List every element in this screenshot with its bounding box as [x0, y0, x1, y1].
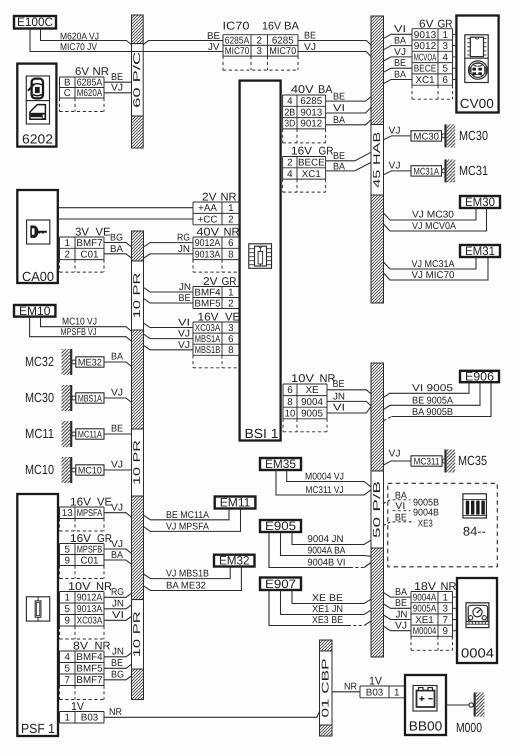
svg-text:6285A: 6285A	[77, 78, 103, 89]
wire XE3 BE from E907 (dashed at harness)	[269, 590, 348, 626]
icon 0004 instrument cluster	[466, 603, 489, 628]
svg-text:BE: BE	[111, 424, 123, 435]
svg-text:4: 4	[65, 652, 71, 663]
svg-text:9005A: 9005A	[413, 604, 437, 615]
svg-text:GR: GR	[319, 146, 334, 158]
wire JN 9013A	[104, 605, 132, 609]
svg-text:JN: JN	[112, 599, 124, 610]
wire 9004 JN from E905	[292, 532, 371, 545]
wire VJ MCVOA	[384, 57, 413, 61]
wire RG 9012A	[144, 243, 194, 247]
wire RG 9012A	[104, 593, 132, 597]
svg-text:VJ: VJ	[178, 340, 190, 351]
wire BE 6285 to 45HAB	[298, 41, 372, 46]
svg-text:5: 5	[443, 64, 449, 75]
svg-text:8: 8	[287, 397, 293, 408]
svg-text:7: 7	[65, 675, 70, 686]
wire JN 9013A	[144, 254, 194, 258]
svg-text:6: 6	[443, 75, 449, 86]
svg-text:3: 3	[228, 323, 234, 334]
svg-text:EM32: EM32	[219, 554, 250, 568]
wire VJ MPSFB	[104, 549, 132, 554]
connector table 1V (PSF1)	[60, 712, 105, 724]
wire VJ M0004	[384, 626, 412, 631]
wire VJ MBS1B to EM32	[144, 567, 231, 579]
svg-text:9: 9	[443, 626, 448, 637]
wire BE BMF5	[104, 664, 132, 668]
wire BE BMF5	[144, 298, 194, 303]
svg-text:8V: 8V	[73, 640, 89, 652]
pin stub ticks 0004	[453, 596, 458, 598]
svg-text:NR: NR	[221, 191, 237, 203]
wire VJ to MC311	[384, 461, 412, 465]
svg-text:9012A: 9012A	[77, 593, 103, 604]
svg-text:2: 2	[228, 215, 233, 226]
svg-text:NR: NR	[441, 581, 457, 593]
svg-text:6V: 6V	[419, 18, 434, 30]
svg-text:M000: M000	[456, 720, 482, 735]
connector table 16V GR (BSI1)	[283, 157, 326, 193]
svg-text:MIC70: MIC70	[225, 46, 250, 57]
svg-text:+AA: +AA	[198, 203, 217, 214]
ground/splice point EM30	[460, 195, 500, 209]
svg-text:BG: BG	[111, 670, 124, 681]
connector table 2V NR (BSI1)	[193, 202, 240, 226]
svg-text:E907: E907	[265, 577, 296, 591]
svg-text:VJ: VJ	[394, 47, 406, 58]
wire VJ MC31A to EM31	[384, 257, 477, 269]
svg-text:BE: BE	[207, 31, 221, 42]
ground MC11	[25, 421, 104, 447]
svg-text:XE1 JN: XE1 JN	[312, 604, 343, 615]
connector 84 (dashed optional unit)	[388, 483, 498, 567]
wire JN 9004	[327, 401, 371, 406]
wire VJ MBS1B	[144, 345, 194, 350]
svg-text:XE3: XE3	[418, 518, 433, 529]
svg-text:XE BE: XE BE	[312, 593, 343, 604]
wire VJ to MC30	[384, 136, 412, 140]
svg-text:9013: 9013	[300, 107, 322, 118]
svg-text:VJ MCV0A: VJ MCV0A	[412, 221, 456, 232]
svg-text:84--: 84--	[463, 524, 486, 538]
wire BA 9005B to E906 (dashed at harness)	[384, 417, 392, 421]
ground/splice point EM11	[215, 496, 256, 510]
svg-text:16V: 16V	[291, 146, 313, 158]
svg-text:M620A VJ: M620A VJ	[60, 31, 99, 42]
svg-text:2V: 2V	[202, 191, 217, 203]
svg-text:JV: JV	[208, 42, 220, 53]
svg-text:JN: JN	[333, 391, 345, 402]
svg-text:GR: GR	[438, 18, 453, 30]
svg-text:MC30: MC30	[25, 390, 54, 405]
connector table IC70	[223, 35, 298, 70]
svg-text:MC31: MC31	[459, 163, 488, 178]
icon 6202 lock/plip cells	[26, 76, 49, 124]
component 0004	[457, 578, 497, 663]
svg-text:BA: BA	[394, 69, 406, 80]
svg-text:BE: BE	[111, 658, 123, 669]
svg-text:MBS1B: MBS1B	[195, 345, 221, 356]
harness 10 PR	[132, 231, 144, 700]
svg-text:VJ: VJ	[111, 388, 123, 399]
svg-text:XE3 BE: XE3 BE	[312, 615, 343, 626]
svg-text:BE: BE	[333, 379, 345, 390]
svg-text:9013A: 9013A	[77, 604, 103, 615]
wire MPSFB VJ from EM10	[30, 317, 132, 342]
wire VI 9013	[384, 34, 413, 38]
wire BA XC1 to 45HAB	[326, 162, 372, 171]
connector table 16V VE (PSF1)	[60, 507, 105, 531]
ground MC30	[411, 124, 488, 147]
component CA00	[17, 190, 58, 283]
connector table 16V GR (PSF1)	[60, 544, 105, 579]
svg-text:MPSFB VJ: MPSFB VJ	[61, 327, 97, 338]
wire BE 9005A	[384, 604, 412, 609]
svg-text:1: 1	[65, 593, 70, 604]
svg-text:2B: 2B	[284, 107, 295, 118]
svg-text:60 P/C: 60 P/C	[132, 52, 143, 108]
svg-text:5: 5	[65, 544, 71, 555]
svg-text:4: 4	[287, 169, 293, 180]
svg-text:40V: 40V	[197, 226, 220, 238]
icon PSF1 fuse	[26, 597, 49, 621]
wire VJ MBS1A	[144, 334, 194, 339]
svg-text:9013: 9013	[414, 30, 437, 41]
wire BA ME32	[104, 362, 132, 367]
svg-text:CV00: CV00	[460, 96, 494, 111]
svg-text:RG: RG	[111, 587, 124, 598]
svg-text:MCVOA: MCVOA	[414, 52, 437, 63]
icon CV00 chip and round connector	[465, 35, 488, 83]
svg-text:MC10: MC10	[25, 462, 54, 477]
svg-text:BA: BA	[110, 244, 123, 255]
ground MC10	[25, 457, 104, 483]
svg-text:9012A: 9012A	[195, 238, 221, 249]
svg-text:B03: B03	[366, 687, 384, 698]
svg-text:BMF5: BMF5	[76, 664, 103, 675]
wire 9004B VI from E905 (dashed at harness)	[269, 532, 350, 568]
svg-text:MBS1A: MBS1A	[195, 334, 221, 345]
svg-text:8: 8	[228, 249, 234, 260]
wire VJ MCVOA to EM30	[384, 208, 487, 231]
wire BB00 to M000 ground	[446, 704, 469, 706]
svg-text:M620A: M620A	[77, 88, 103, 99]
svg-text:B03: B03	[81, 713, 99, 724]
svg-text:MC10: MC10	[78, 466, 102, 477]
wire BE 6285 to 45HAB	[326, 96, 372, 101]
wire BE 60P/C to IC70	[143, 41, 223, 45]
svg-text:BECE: BECE	[414, 64, 437, 75]
wire VJ MIC70 to EM31	[384, 257, 489, 280]
svg-text:MC311: MC311	[414, 457, 440, 468]
svg-text:M0004: M0004	[413, 626, 437, 637]
svg-text:9004B VI: 9004B VI	[308, 557, 346, 568]
svg-text:4: 4	[287, 96, 293, 107]
connector table 6V NR (6202)	[60, 77, 105, 112]
svg-text:NR: NR	[93, 66, 110, 78]
svg-text:EM10: EM10	[19, 304, 51, 318]
connector table 1V B03 (BB00)	[360, 686, 405, 698]
wire +AA from CA00	[58, 207, 193, 209]
wire BA ME32 to EM32	[144, 567, 242, 591]
wire JN BMF4	[104, 653, 132, 657]
wire BA 9012	[384, 46, 413, 50]
svg-text:BA: BA	[318, 84, 333, 96]
ground/splice point EM31	[460, 244, 500, 258]
svg-text:NR: NR	[96, 581, 112, 593]
connector table 2V GR (BSI1)	[193, 287, 240, 310]
svg-text:NR: NR	[95, 640, 111, 652]
svg-text:3D: 3D	[284, 119, 295, 130]
wire dashed stub to 84 BA	[384, 500, 391, 504]
svg-text:3: 3	[443, 604, 449, 615]
svg-text:VJ: VJ	[395, 621, 407, 632]
icon 84 DIP connector	[463, 494, 487, 518]
svg-text:0004: 0004	[461, 646, 494, 661]
wire BE BECE to 45HAB	[326, 152, 372, 161]
wire VJ MIC70 to 45HAB	[298, 52, 372, 57]
svg-text:1V: 1V	[369, 675, 383, 687]
svg-text:E905: E905	[265, 519, 296, 533]
svg-text:9004A: 9004A	[413, 593, 437, 604]
svg-text:1V: 1V	[71, 701, 85, 713]
svg-text:M0004 VJ: M0004 VJ	[305, 472, 344, 483]
connector table 8V NR (PSF1)	[60, 651, 105, 700]
wire BE 9005A to E906	[384, 382, 481, 409]
svg-text:2: 2	[65, 249, 70, 260]
connector table 18V NR (0004)	[411, 592, 453, 651]
svg-text:13: 13	[62, 508, 73, 519]
svg-text:6V: 6V	[75, 66, 90, 78]
connector table 3V VE (CA00)	[60, 237, 105, 272]
svg-text:9: 9	[65, 555, 70, 566]
svg-text:10V: 10V	[68, 581, 91, 593]
svg-text:B: B	[64, 78, 71, 89]
wire VJ MPSFA to EM11	[144, 509, 241, 532]
svg-text:16V: 16V	[198, 311, 220, 323]
svg-text:45 HAB: 45 HAB	[372, 131, 383, 188]
wire VI XC03A	[144, 323, 194, 328]
svg-text:40V: 40V	[291, 84, 314, 96]
svg-text:E906: E906	[465, 370, 494, 384]
svg-text:EM31: EM31	[465, 244, 495, 258]
svg-text:BA: BA	[111, 550, 123, 561]
connector table 16V VE (BSI1)	[193, 322, 240, 368]
svg-text:2: 2	[257, 35, 262, 46]
svg-text:GR: GR	[97, 533, 112, 545]
harness 01 CBP	[320, 640, 333, 736]
connector table 10V NR (BSI1)	[283, 384, 327, 432]
component CV00	[456, 16, 498, 113]
svg-text:BA: BA	[394, 36, 406, 47]
connector table 10V NR (PSF1)	[60, 592, 105, 640]
svg-text:2V: 2V	[203, 276, 218, 288]
svg-text:7: 7	[443, 615, 448, 626]
svg-text:VJ MC30: VJ MC30	[412, 210, 455, 221]
wire VI 9005	[327, 406, 371, 413]
svg-text:VJ: VJ	[389, 161, 401, 172]
svg-text:6: 6	[287, 385, 293, 396]
icon BSI1 internal connector	[249, 244, 272, 268]
svg-text:2: 2	[228, 298, 233, 309]
wire VJ MC30 to EM30	[384, 208, 477, 220]
svg-text:1: 1	[228, 287, 233, 298]
svg-text:3: 3	[443, 41, 449, 52]
component BSI1	[240, 81, 281, 441]
svg-text:BSI 1: BSI 1	[245, 426, 279, 441]
svg-text:9004A BA: 9004A BA	[308, 546, 346, 557]
svg-text:VJ MC31A: VJ MC31A	[412, 259, 455, 270]
svg-text:BA: BA	[284, 21, 300, 33]
svg-text:1: 1	[65, 238, 70, 249]
wire BE XE	[327, 390, 371, 394]
svg-text:C01: C01	[81, 249, 99, 260]
svg-text:JN: JN	[178, 244, 190, 255]
svg-text:JN: JN	[112, 647, 124, 658]
wire BA C01	[104, 254, 132, 258]
svg-text:VI: VI	[112, 610, 124, 621]
ground MC35	[411, 450, 487, 473]
svg-text:VI: VI	[178, 317, 190, 328]
svg-text:VJ: VJ	[178, 328, 190, 339]
wire BA XC1	[384, 80, 413, 84]
svg-text:BMF4: BMF4	[76, 652, 103, 663]
svg-text:5: 5	[65, 664, 71, 675]
svg-text:3V: 3V	[75, 226, 90, 238]
svg-text:BE: BE	[395, 598, 407, 609]
harness 45 HAB	[371, 16, 384, 303]
svg-text:5: 5	[65, 604, 71, 615]
svg-text:XC1: XC1	[302, 169, 321, 180]
component PSF1	[17, 494, 58, 736]
svg-text:BE: BE	[333, 91, 345, 102]
svg-text:IC70: IC70	[223, 21, 250, 33]
wire BA 9012 to 45HAB	[326, 120, 372, 125]
svg-text:VI: VI	[333, 403, 345, 414]
svg-text:VI: VI	[394, 24, 406, 35]
svg-text:VJ: VJ	[304, 42, 316, 53]
svg-text:9005: 9005	[301, 408, 323, 419]
ground/splice point EM35	[260, 457, 301, 471]
svg-text:BA: BA	[333, 161, 345, 172]
svg-text:C01: C01	[81, 555, 99, 566]
svg-text:1: 1	[394, 687, 399, 698]
svg-text:9013A: 9013A	[195, 249, 221, 260]
svg-text:RG: RG	[177, 233, 190, 244]
svg-text:MIC70: MIC70	[269, 46, 297, 57]
svg-text:BA ME32: BA ME32	[166, 581, 206, 592]
svg-text:6: 6	[228, 334, 234, 345]
wire NR from 01CBP to B03	[332, 691, 360, 693]
svg-text:VE: VE	[96, 226, 111, 238]
svg-text:NR: NR	[224, 226, 240, 238]
svg-text:C: C	[64, 88, 71, 99]
wire BG BMF7	[104, 243, 132, 248]
wire VI 9005 to E906	[384, 382, 470, 397]
svg-text:2: 2	[287, 158, 292, 169]
wire MC10 VJ from EM10	[41, 317, 132, 332]
svg-text:9012: 9012	[300, 119, 322, 130]
wire NR B03 to 01CBP	[104, 711, 320, 717]
svg-text:VJ: VJ	[111, 460, 123, 471]
svg-text:BE MC11A: BE MC11A	[166, 510, 209, 521]
ground/splice point E905	[260, 519, 301, 533]
wire VJ MBS1A	[104, 398, 132, 403]
svg-text:VJ MBS1B: VJ MBS1B	[166, 569, 209, 580]
svg-text:MC32: MC32	[25, 354, 54, 369]
svg-text:6: 6	[228, 238, 234, 249]
svg-text:50 P/B: 50 P/B	[372, 480, 383, 538]
svg-text:1: 1	[443, 30, 448, 41]
svg-text:VE: VE	[97, 497, 112, 509]
svg-text:10: 10	[285, 408, 296, 419]
wire BE MC11A	[104, 433, 132, 435]
svg-text:BA 9005B: BA 9005B	[412, 407, 453, 418]
svg-text:MC30: MC30	[459, 128, 488, 143]
svg-text:1: 1	[443, 593, 448, 604]
svg-text:NR: NR	[109, 707, 122, 718]
svg-text:BA: BA	[111, 352, 123, 363]
ground MC30 body	[25, 385, 104, 411]
svg-text:10V: 10V	[291, 373, 315, 385]
svg-text:MPSFB: MPSFB	[77, 544, 103, 555]
icon BB00 battery	[413, 686, 437, 712]
connector table 40V NR (BSI1)	[193, 237, 240, 272]
svg-text:BA: BA	[333, 115, 345, 126]
svg-text:MIC70 JV: MIC70 JV	[60, 42, 97, 53]
ground M000	[456, 693, 484, 736]
svg-text:BE: BE	[394, 58, 406, 69]
svg-text:9012: 9012	[414, 41, 437, 52]
svg-text:VI: VI	[333, 103, 345, 114]
ground/splice point E907	[260, 577, 301, 591]
connector table 6V GR (CV00)	[412, 29, 453, 100]
svg-text:BB00: BB00	[409, 719, 443, 734]
svg-text:VI 9005: VI 9005	[412, 383, 454, 394]
svg-text:9004: 9004	[301, 397, 323, 408]
svg-text:NR: NR	[344, 682, 357, 693]
wire M0004 VJ from EM35	[287, 470, 371, 487]
svg-text:VJ MPSFA: VJ MPSFA	[166, 522, 209, 533]
wire VJ M620A	[104, 92, 132, 94]
svg-text:VJ: VJ	[111, 502, 123, 513]
component 6202	[17, 64, 56, 147]
svg-text:MC311 VJ: MC311 VJ	[306, 485, 344, 496]
svg-text:MC35: MC35	[458, 453, 487, 468]
svg-text:GR: GR	[222, 276, 237, 288]
svg-text:CA00: CA00	[22, 269, 54, 284]
ground/splice point EM32	[214, 554, 255, 568]
svg-text:10 PR: 10 PR	[132, 611, 143, 657]
svg-text:BG: BG	[110, 233, 123, 244]
svg-text:XC03A: XC03A	[77, 616, 103, 627]
svg-text:VJ: VJ	[111, 539, 123, 550]
svg-text:18V: 18V	[414, 581, 437, 593]
svg-text:9: 9	[65, 616, 70, 627]
svg-text:VJ: VJ	[389, 448, 401, 459]
svg-text:VJ: VJ	[111, 83, 123, 94]
wire VJ to MC31	[384, 171, 412, 175]
svg-text:BE: BE	[304, 31, 316, 42]
wire XE BE from E907	[292, 590, 371, 604]
svg-text:1: 1	[228, 203, 233, 214]
connector table 40V BA (BSI1)	[283, 95, 326, 143]
svg-text:MC11A: MC11A	[78, 430, 102, 441]
svg-text:9004 JN: 9004 JN	[308, 534, 344, 545]
svg-text:6285: 6285	[300, 96, 322, 107]
svg-text:ME32: ME32	[78, 358, 102, 369]
svg-text:+CC: +CC	[198, 215, 218, 226]
